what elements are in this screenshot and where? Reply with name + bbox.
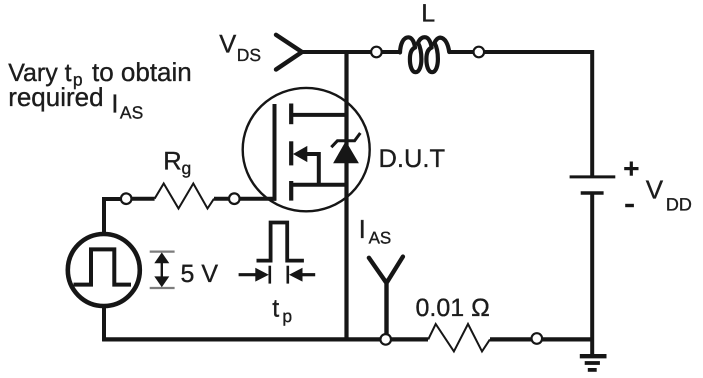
transistor body connection with bend	[306, 154, 319, 185]
transistor drain stub	[291, 113, 346, 117]
svg-text:required: required	[8, 82, 103, 112]
svg-text:R: R	[163, 148, 181, 176]
wire pulse generator top lead	[104, 199, 126, 234]
node open circle right of Rg	[229, 193, 240, 204]
pulse generator waveform	[74, 249, 132, 284]
wire bottom rail left of shunt	[102, 337, 428, 341]
ground bar 1	[580, 354, 607, 358]
probe arrow IAS	[369, 257, 403, 339]
transistor channel segment middle	[289, 141, 293, 165]
svg-text:I: I	[359, 214, 366, 244]
node open circle right of L	[474, 47, 485, 58]
svg-text:D.U.T: D.U.T	[379, 145, 446, 173]
measure 5V arrow head up	[154, 252, 169, 263]
svg-text:V: V	[646, 174, 664, 204]
diode body zener triangle	[333, 141, 359, 163]
tp measure left tick	[268, 266, 271, 284]
label minus	[625, 204, 634, 207]
tp measure left arrow head	[255, 268, 268, 282]
svg-text:DS: DS	[237, 45, 261, 65]
wire gate lead right of Rg	[214, 197, 276, 201]
tp measure right arrow	[301, 273, 315, 276]
resistor Rg zigzag	[155, 184, 214, 209]
svg-text:AS: AS	[369, 229, 392, 248]
measure 5V bottom tick	[150, 287, 175, 289]
node open circle right of shunt	[532, 333, 543, 344]
wire top rail right	[449, 50, 592, 54]
svg-text:V: V	[219, 31, 236, 59]
label plus	[624, 167, 638, 170]
ground bar 3	[588, 368, 597, 372]
battery VDD plate short	[581, 191, 604, 194]
wire pulse generator bottom lead	[102, 306, 106, 341]
transistor body arrow head	[293, 146, 307, 162]
wire top rail left	[302, 50, 401, 54]
transistor channel segment bottom	[289, 181, 293, 201]
ground bar 2	[585, 361, 600, 365]
measure 5V arrow shaft	[161, 259, 163, 281]
tp measure right tick	[286, 266, 289, 284]
transistor Q1 DUT circle	[243, 88, 370, 211]
wire right rail upper	[590, 50, 594, 176]
tp pulse symbol	[257, 223, 304, 261]
transistor gate bar	[273, 104, 277, 201]
node open circle left of L	[371, 47, 382, 58]
transistor channel segment top	[289, 104, 293, 125]
svg-text:L: L	[421, 0, 435, 28]
transistor source stub	[291, 183, 346, 187]
measure 5V top tick	[150, 251, 175, 253]
resistor 0.01 ohm zigzag	[428, 324, 490, 351]
svg-text:I: I	[111, 89, 118, 119]
svg-text:5 V: 5 V	[181, 260, 219, 288]
svg-text:to obtain: to obtain	[92, 57, 192, 87]
probe arrow VDS	[276, 35, 302, 70]
svg-text:t: t	[272, 295, 279, 323]
svg-text:0.01 Ω: 0.01 Ω	[416, 294, 490, 322]
diode cathode bar with hooks	[331, 133, 360, 147]
inductor L	[400, 37, 449, 72]
wire bottom rail right of shunt	[490, 337, 592, 341]
tp measure left arrow	[239, 273, 257, 276]
svg-text:g: g	[182, 158, 192, 178]
tp measure right arrow head	[289, 268, 303, 282]
wire drain-source bus	[344, 52, 348, 339]
svg-text:AS: AS	[120, 102, 143, 122]
node open circle at IAS junction	[380, 334, 391, 345]
node open circle left of Rg	[121, 193, 132, 204]
svg-text:p: p	[282, 306, 292, 326]
pulse generator V1 circle	[68, 234, 140, 306]
wire right rail lower	[590, 193, 594, 355]
svg-text:DD: DD	[666, 195, 692, 215]
battery VDD plate long	[570, 175, 616, 178]
measure 5V arrow head down	[154, 276, 169, 287]
wire gate lead	[126, 197, 155, 201]
